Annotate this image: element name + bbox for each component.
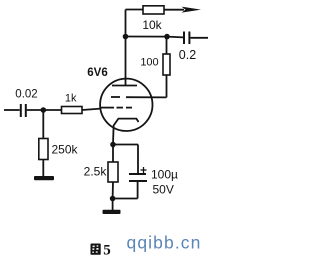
svg-text:100µ: 100µ [151,168,178,182]
svg-text:2.5k: 2.5k [84,165,108,179]
svg-text:100: 100 [140,57,158,69]
svg-text:1k: 1k [65,93,77,105]
svg-text:6V6: 6V6 [87,67,107,79]
svg-text:10k: 10k [142,18,162,32]
svg-text:50V: 50V [153,183,174,197]
svg-text:0.2: 0.2 [179,48,196,62]
svg-text:0.02: 0.02 [15,89,37,101]
svg-text:qqibb.cn: qqibb.cn [127,233,202,253]
svg-text:250k: 250k [51,143,78,157]
svg-text:5: 5 [103,243,111,259]
